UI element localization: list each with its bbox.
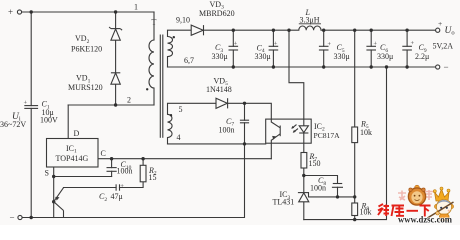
svg-text:6,7: 6,7 — [184, 56, 194, 65]
wire: secondary top to VD3 — [168, 30, 192, 36]
wire: VD2 stub from node 1 — [115, 12, 117, 29]
wire: C4 stubs — [272, 30, 274, 46]
wire: C pin horizontal — [98, 158, 271, 160]
svg-text:+: + — [438, 19, 442, 28]
svg-text:TL431: TL431 — [273, 198, 295, 207]
transformer T secondary winding — [168, 37, 173, 57]
capacitor C6 — [366, 45, 376, 47]
output terminal + — [436, 28, 440, 32]
wire: R8 bottom stub — [354, 216, 356, 220]
diode VD1 (MURS120) — [111, 73, 120, 84]
resistor R8 — [352, 203, 358, 216]
svg-text:47μ: 47μ — [111, 192, 123, 201]
svg-text:150: 150 — [309, 159, 321, 168]
inductor L 3.3uH — [299, 26, 321, 30]
wire: primary ground rail — [22, 144, 244, 218]
capacitor C3 — [229, 45, 239, 47]
resistor R2 — [140, 165, 146, 182]
svg-text:36~72V: 36~72V — [0, 120, 26, 129]
svg-text:2: 2 — [127, 96, 131, 105]
output terminal - — [436, 65, 440, 69]
svg-text:100V: 100V — [40, 115, 58, 124]
capacitor C4 — [269, 45, 279, 47]
wire: A node to C8 — [304, 176, 338, 184]
svg-text:D: D — [74, 129, 80, 138]
svg-text:9,10: 9,10 — [176, 16, 190, 25]
svg-text:+: + — [120, 183, 124, 190]
watermark: badge circle mascot — [408, 185, 425, 205]
wire: TL431 ref hook to divider — [309, 193, 355, 197]
capacitor C8 — [333, 183, 342, 185]
svg-text:330μ: 330μ — [377, 52, 393, 61]
capacitor C1 — [24, 105, 38, 107]
transformer phase dots — [146, 36, 175, 116]
svg-text:TOP414G: TOP414G — [56, 154, 89, 163]
watermark: red brand text (drawn strokes) — [378, 204, 431, 217]
transformer T primary winding — [149, 40, 154, 88]
IC1 TOP414G box — [47, 139, 99, 168]
wire: bias winding pin5 to VD5 — [168, 103, 217, 114]
wire: R5 divider line top — [354, 30, 356, 127]
svg-text:100n: 100n — [219, 125, 235, 134]
svg-text:100n: 100n — [117, 167, 133, 176]
svg-text:2.2μ: 2.2μ — [415, 52, 429, 61]
transistor Q1 — [54, 188, 64, 202]
wire: C1 bottom to rail — [30, 108, 32, 217]
wire: TL431 anode down — [303, 202, 305, 220]
svg-text:T: T — [152, 18, 157, 27]
wire: VD5 cathode to opto collector — [228, 103, 272, 122]
wire: S horizontal to C10 — [54, 176, 112, 178]
capacitor C5 — [319, 45, 329, 47]
svg-text:330μ: 330μ — [255, 52, 271, 61]
svg-text:MURS120: MURS120 — [68, 83, 103, 92]
wire: S pin vertical — [53, 167, 55, 218]
wire: +5V rail L to + terminal — [321, 29, 435, 31]
svg-text:100n: 100n — [310, 184, 326, 193]
svg-text:C: C — [101, 149, 106, 158]
wire: output ground rail — [168, 66, 436, 68]
transformer core — [159, 35, 161, 138]
svg-text:+: + — [24, 99, 28, 106]
svg-text:+: + — [234, 41, 238, 48]
watermark: crowned mascot — [425, 187, 454, 221]
wire: C6 stubs — [370, 30, 372, 46]
input terminal - — [18, 215, 22, 219]
wire: R5 to ref node — [354, 143, 356, 203]
wire: C8 bottom stub — [337, 187, 339, 197]
input terminal + — [17, 10, 21, 14]
svg-text:+: + — [327, 41, 331, 48]
wire: +5V rail VD3 to L — [205, 29, 299, 31]
svg-text:P6KE120: P6KE120 — [71, 45, 102, 54]
opto light arrows — [292, 125, 297, 129]
capacitor C2 (47u) — [115, 184, 117, 190]
svg-text:1: 1 — [134, 2, 138, 11]
wire: R7 to TL431 cathode — [303, 168, 305, 193]
svg-text:www.dzsc.com: www.dzsc.com — [398, 215, 452, 225]
svg-text:10k: 10k — [360, 128, 372, 137]
svg-text:330μ: 330μ — [212, 52, 228, 61]
wire: LED cathode to R7 — [303, 133, 305, 152]
wire: primary bottom stub — [153, 88, 155, 105]
watermark: faint pink slogan strokes — [398, 190, 433, 200]
opto phototransistor — [271, 122, 280, 128]
svg-text:−: − — [444, 62, 449, 72]
wire: secondary bottom stub — [167, 57, 169, 67]
svg-text:MBRD620: MBRD620 — [199, 9, 235, 18]
wire: opto emitter down to C pin wire — [270, 140, 272, 158]
opto LED — [303, 119, 305, 126]
transformer T bias winding — [168, 114, 173, 137]
wire: D node horizontal (node 2) — [68, 104, 154, 106]
wire: primary top stub — [153, 12, 155, 40]
wire: secondary ground bus — [304, 67, 387, 220]
wire: LED tap from +5V raw node — [289, 30, 304, 119]
wire: bias winding bottom stub — [167, 138, 169, 144]
svg-text:4: 4 — [177, 133, 181, 142]
svg-text:5: 5 — [179, 105, 183, 114]
wire: C7 stubs — [244, 103, 246, 120]
wire: D pin vertical — [67, 105, 69, 139]
diode VD5 (1N4148) — [216, 98, 227, 108]
svg-text:+: + — [274, 41, 278, 48]
svg-text:330μ: 330μ — [334, 52, 350, 61]
wire: C1 top — [30, 12, 32, 106]
TL431 IC3 — [298, 192, 309, 194]
svg-text:−: − — [10, 213, 15, 223]
wire: VD1 to node 2 — [115, 84, 117, 105]
svg-text:5V,2A: 5V,2A — [433, 41, 454, 50]
svg-text:3.3μH: 3.3μH — [300, 16, 320, 25]
svg-text:S: S — [45, 169, 49, 178]
wire: C5 stubs — [323, 30, 325, 46]
wire: R2 stubs — [142, 159, 144, 166]
wire: bias return (pin4) — [168, 143, 266, 145]
svg-text:+: + — [373, 41, 377, 48]
svg-text:+: + — [8, 7, 13, 17]
capacitor C10 — [107, 167, 117, 169]
wire: C9 stubs — [406, 30, 408, 46]
svg-text:10k: 10k — [360, 207, 372, 216]
diode VD3 (MBRD620) — [191, 25, 203, 35]
wire: input + to primary top — [22, 11, 154, 13]
svg-text:PC817A: PC817A — [314, 131, 341, 140]
wire: C3 stubs — [232, 30, 234, 46]
svg-text:15: 15 — [149, 173, 157, 182]
capacitor C7 — [240, 119, 249, 121]
wire: C10 stubs — [111, 159, 113, 168]
svg-text:+: + — [411, 40, 415, 47]
wire: VD2-VD1 link — [115, 40, 117, 73]
svg-text:1N4148: 1N4148 — [206, 85, 232, 94]
resistor R7 — [301, 153, 307, 169]
wire: C2 left to transistor emitter — [64, 187, 117, 189]
TVS diode VD2 (P6KE120) — [111, 29, 120, 40]
optocoupler IC2 box — [266, 119, 312, 143]
capacitor C9 — [402, 45, 412, 47]
resistor R5 — [352, 127, 358, 143]
